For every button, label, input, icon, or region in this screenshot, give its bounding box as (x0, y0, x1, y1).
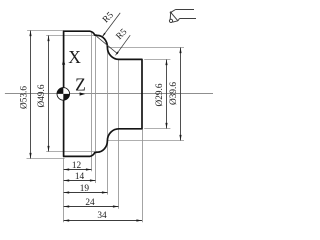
extension line O49.6 top (46, 35, 97, 37)
extension line O39.6 top (108, 47, 184, 49)
dimension O49.6 line (47, 36, 49, 152)
dimension O39.6 line (179, 48, 181, 141)
extension line O49.6 bottom (46, 151, 97, 153)
leader R5 upper (102, 13, 120, 37)
part outline (64, 31, 142, 156)
dimension O29.6 line (165, 60, 167, 129)
svg-text:Ø39.6: Ø39.6 (169, 82, 179, 105)
svg-text:24: 24 (85, 198, 95, 208)
svg-text:19: 19 (80, 184, 90, 194)
dimension 12 line (64, 168, 92, 170)
tool icon vertex dot (170, 11, 172, 13)
extension line vertical at z=24 (118, 59, 120, 208)
svg-text:Ø49.6: Ø49.6 (37, 84, 47, 107)
extension line O29.6 bottom (144, 128, 170, 130)
dimension 34 line (64, 219, 142, 221)
dimension 24 line (64, 205, 119, 207)
dimension 19 line (64, 191, 108, 193)
extension line vertical at z=19 (107, 47, 109, 194)
centerline (part axis) (5, 93, 213, 95)
svg-text:Ø29.6: Ø29.6 (155, 83, 165, 106)
extension line O29.6 top (144, 59, 170, 61)
dimension 14 line (64, 179, 96, 181)
extension line vertical at z=12 (91, 31, 93, 171)
svg-text:Ø53.6: Ø53.6 (20, 86, 30, 109)
Z axis arrow (80, 92, 86, 95)
dimension O53.6 line (29, 31, 31, 159)
extension line vertical below left face (63, 158, 65, 223)
svg-text:Z: Z (75, 75, 86, 95)
origin symbol (57, 88, 70, 101)
svg-text:12: 12 (72, 161, 82, 171)
tool icon top right (169, 10, 196, 23)
leader R5 lower diagonal through curve (96, 35, 130, 56)
svg-text:14: 14 (75, 172, 85, 182)
X axis arrow (62, 59, 65, 64)
extension line vertical at z=14 (95, 35, 97, 183)
extension line O53.6 bottom (27, 158, 65, 160)
svg-text:34: 34 (97, 211, 107, 221)
extension line vertical below right face (142, 130, 144, 223)
extension line O53.6 top (27, 30, 64, 32)
extension line O39.6 bottom (108, 140, 184, 142)
svg-text:X: X (68, 47, 81, 67)
